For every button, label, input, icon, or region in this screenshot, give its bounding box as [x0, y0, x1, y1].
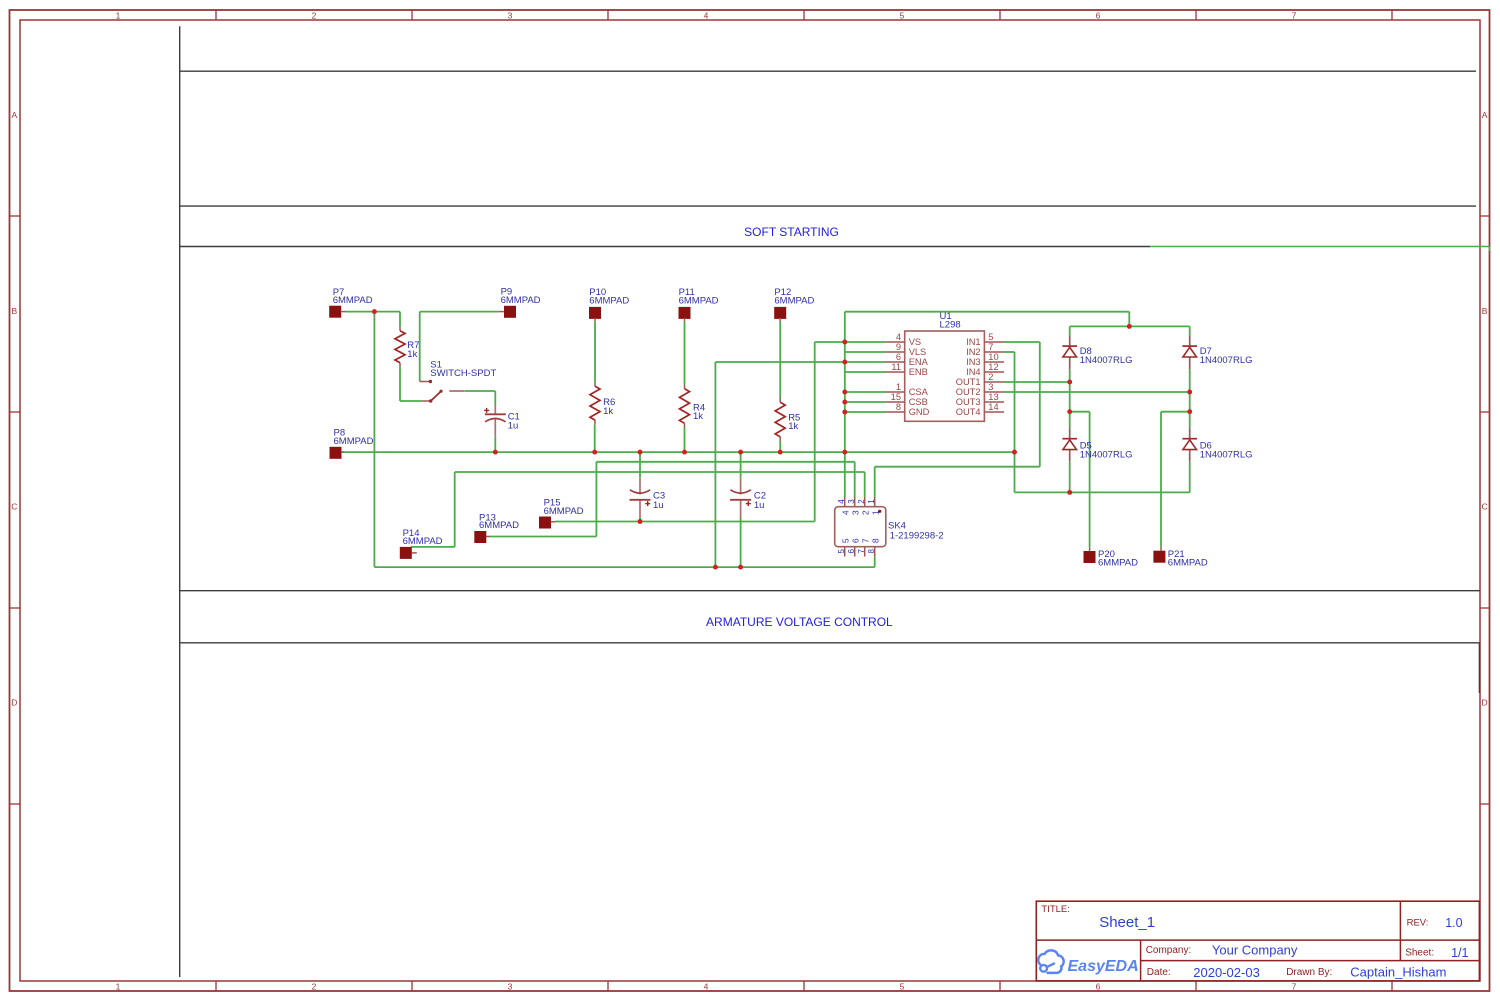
- svg-text:2: 2: [988, 372, 993, 382]
- svg-text:5: 5: [840, 538, 850, 543]
- svg-text:8: 8: [870, 538, 880, 543]
- pad P12: [774, 287, 814, 322]
- svg-text:1N4007RLG: 1N4007RLG: [1080, 355, 1133, 366]
- svg-text:1: 1: [116, 981, 121, 991]
- svg-text:D: D: [1482, 698, 1488, 708]
- svg-text:4: 4: [840, 510, 850, 515]
- svg-text:2: 2: [312, 981, 317, 991]
- section line 1: [180, 70, 1476, 72]
- wire OUT1: [1004, 381, 1070, 383]
- wire CSA pin: [845, 391, 885, 393]
- svg-text:9: 9: [896, 342, 901, 352]
- wire P21 branch: [1161, 412, 1190, 547]
- capacitor C2 1u: [730, 477, 766, 518]
- svg-text:SOFT STARTING: SOFT STARTING: [744, 225, 839, 239]
- wire P7 riser to bottom: [373, 312, 375, 567]
- U1 pin 4 VS: [885, 332, 921, 347]
- svg-text:7: 7: [1292, 10, 1297, 20]
- svg-text:15: 15: [891, 392, 901, 402]
- svg-text:C: C: [11, 502, 17, 512]
- svg-text:1N4007RLG: 1N4007RLG: [1200, 450, 1253, 461]
- frame row ticks and letters: [10, 110, 1490, 804]
- svg-text:10: 10: [988, 352, 998, 362]
- svg-text:6MMPAD: 6MMPAD: [589, 295, 629, 306]
- svg-text:Company:: Company:: [1146, 945, 1192, 956]
- svg-text:1N4007RLG: 1N4007RLG: [1080, 450, 1133, 461]
- pad P13: [474, 513, 519, 544]
- svg-text:B: B: [1482, 306, 1488, 316]
- svg-text:OUT2: OUT2: [956, 387, 981, 397]
- svg-text:6MMPAD: 6MMPAD: [774, 295, 814, 306]
- svg-text:Sheet_1: Sheet_1: [1099, 914, 1155, 931]
- svg-text:6MMPAD: 6MMPAD: [334, 436, 374, 447]
- svg-text:5: 5: [837, 549, 846, 554]
- svg-text:IN2: IN2: [966, 347, 980, 357]
- svg-text:12: 12: [988, 362, 998, 372]
- svg-text:CSB: CSB: [909, 397, 928, 407]
- title block texts: [1041, 904, 1468, 980]
- svg-text:Date:: Date:: [1147, 967, 1171, 978]
- svg-text:6: 6: [1096, 10, 1101, 20]
- wire P7 row: [346, 311, 400, 313]
- diode D8 1N4007RLG: [1062, 326, 1132, 382]
- switch S1 SWITCH-SPDT: [420, 360, 497, 403]
- svg-text:5: 5: [900, 981, 905, 991]
- wire D7-D6 link: [1189, 392, 1191, 412]
- pad P10: [589, 287, 629, 322]
- pad P8: [330, 427, 374, 458]
- svg-text:4: 4: [837, 499, 846, 504]
- wire D5-D6 bottom: [1015, 491, 1190, 493]
- svg-text:6MMPAD: 6MMPAD: [403, 536, 443, 547]
- diode D5 1N4007RLG: [1062, 412, 1132, 493]
- SK4 pin 5: [837, 538, 850, 556]
- svg-text:ENA: ENA: [909, 357, 929, 367]
- svg-text:1/1: 1/1: [1451, 946, 1468, 960]
- junction dots: [372, 309, 1192, 569]
- svg-text:1k: 1k: [407, 349, 417, 360]
- svg-text:1.0: 1.0: [1445, 916, 1462, 930]
- svg-text:OUT1: OUT1: [956, 377, 981, 387]
- U1 pin 6 ENA: [885, 352, 929, 367]
- svg-text:1k: 1k: [603, 406, 613, 417]
- svg-text:1u: 1u: [754, 500, 765, 511]
- svg-text:1: 1: [116, 10, 121, 20]
- svg-text:1u: 1u: [653, 500, 664, 511]
- resistor R4: [680, 385, 706, 428]
- wire R7 column: [400, 312, 421, 401]
- wire main bus: [342, 451, 1015, 453]
- svg-text:2: 2: [312, 10, 317, 20]
- U1 pin 12 IN4: [966, 362, 1004, 377]
- wire P10-R6 column: [594, 322, 596, 452]
- wire P14 net: [411, 472, 455, 547]
- U1 pin 13 OUT3: [956, 392, 1004, 407]
- wire switch to C1: [465, 391, 496, 405]
- svg-text:1: 1: [867, 499, 876, 504]
- svg-text:7: 7: [1292, 981, 1297, 991]
- resistor R5: [775, 398, 800, 441]
- wire OUT2: [1004, 391, 1190, 393]
- wire SK4 pin2 net: [455, 472, 865, 497]
- svg-text:7: 7: [860, 538, 870, 543]
- diode D6 1N4007RLG: [1182, 412, 1252, 493]
- pad P9: [498, 287, 540, 318]
- svg-text:13: 13: [988, 392, 998, 402]
- capacitor C1 1u: [484, 405, 520, 437]
- svg-text:4: 4: [704, 10, 709, 20]
- svg-text:11: 11: [891, 362, 901, 372]
- resistor R7: [395, 327, 419, 367]
- svg-text:2: 2: [860, 510, 870, 515]
- svg-text:8: 8: [896, 402, 901, 412]
- svg-text:A: A: [11, 110, 17, 120]
- pad P15: [539, 498, 584, 529]
- SK4 pin 6: [847, 538, 860, 556]
- svg-text:ARMATURE VOLTAGE CONTROL: ARMATURE VOLTAGE CONTROL: [706, 615, 893, 629]
- SK4 pin 8: [867, 538, 880, 556]
- svg-text:Sheet:: Sheet:: [1405, 948, 1434, 959]
- section title ARMATURE VOLTAGE CONTROL: [706, 615, 893, 629]
- wire P15 net: [555, 521, 815, 523]
- U1 pin 10 IN3: [966, 352, 1004, 367]
- svg-text:OUT3: OUT3: [956, 397, 981, 407]
- connector SK4 1-2199298-2: [835, 507, 944, 547]
- wire D8-D7 top: [1070, 325, 1190, 327]
- resistor R6: [590, 382, 615, 424]
- wire P12-R5 column: [779, 322, 781, 452]
- wire net along section line 3: [1150, 247, 1489, 252]
- svg-text:3: 3: [508, 981, 513, 991]
- section edge stub right: [1478, 643, 1480, 693]
- svg-text:6: 6: [847, 549, 856, 554]
- svg-text:GND: GND: [909, 407, 930, 417]
- svg-text:6MMPAD: 6MMPAD: [679, 295, 719, 306]
- svg-text:REV:: REV:: [1407, 917, 1429, 928]
- svg-text:OUT4: OUT4: [956, 407, 981, 417]
- SK4 pin 4: [837, 497, 850, 515]
- wire SK4 pin4 riser: [844, 312, 846, 497]
- pad P20: [1084, 547, 1139, 568]
- svg-text:5: 5: [988, 332, 993, 342]
- svg-text:1N4007RLG: 1N4007RLG: [1200, 355, 1253, 366]
- svg-text:2: 2: [857, 499, 866, 504]
- svg-text:3: 3: [847, 499, 856, 504]
- SK4 pin 1: [867, 497, 880, 515]
- svg-text:D: D: [11, 698, 17, 708]
- wire SK4 pin1 net: [875, 467, 1040, 497]
- wire ENA pin: [715, 361, 885, 363]
- svg-text:A: A: [1482, 110, 1488, 120]
- section line 4: [180, 590, 1480, 592]
- wire IN2: [1004, 352, 1015, 492]
- svg-text:VLS: VLS: [909, 347, 927, 357]
- pad P11: [679, 287, 719, 322]
- svg-text:C: C: [1482, 502, 1488, 512]
- wire SK4 pin3 net: [596, 462, 854, 497]
- pad P7: [329, 287, 373, 318]
- svg-text:SWITCH-SPDT: SWITCH-SPDT: [430, 368, 496, 379]
- svg-text:4: 4: [896, 332, 901, 342]
- svg-text:6MMPAD: 6MMPAD: [501, 295, 541, 306]
- svg-text:6MMPAD: 6MMPAD: [1168, 558, 1208, 569]
- diode D7 1N4007RLG: [1182, 326, 1252, 392]
- svg-text:IN1: IN1: [966, 337, 980, 347]
- svg-text:CSA: CSA: [909, 387, 929, 397]
- svg-text:ENB: ENB: [909, 367, 928, 377]
- wire top bus VS net: [845, 312, 1130, 327]
- U1 pin 14 OUT4: [956, 402, 1004, 417]
- svg-text:6MMPAD: 6MMPAD: [479, 520, 519, 531]
- svg-text:Your Company: Your Company: [1212, 943, 1298, 958]
- svg-text:3: 3: [508, 10, 513, 20]
- svg-text:14: 14: [988, 402, 998, 412]
- svg-text:6MMPAD: 6MMPAD: [544, 506, 584, 517]
- svg-text:1: 1: [870, 510, 880, 515]
- svg-text:1k: 1k: [693, 411, 703, 422]
- svg-text:6MMPAD: 6MMPAD: [1098, 558, 1138, 569]
- wire CSB pin: [845, 401, 885, 403]
- pad P14: [400, 528, 443, 559]
- wire VS-P15 riser: [814, 342, 816, 522]
- wire IN1: [1004, 342, 1040, 467]
- U1 pin 9 VLS: [885, 342, 926, 357]
- svg-text:EasyEDA: EasyEDA: [1068, 958, 1139, 975]
- svg-text:3: 3: [988, 382, 993, 392]
- svg-text:B: B: [11, 306, 17, 316]
- wire D8-D5 link: [1069, 382, 1071, 412]
- wire VLS pin: [845, 351, 885, 353]
- svg-text:VS: VS: [909, 337, 921, 347]
- EasyEDA logo: [1038, 950, 1138, 975]
- svg-text:L298: L298: [940, 320, 961, 331]
- svg-text:6: 6: [850, 538, 860, 543]
- capacitor C3 1u: [630, 477, 666, 518]
- U1 pin 3 OUT2: [956, 382, 1004, 397]
- svg-text:IN4: IN4: [966, 367, 980, 377]
- SK4 pin 2: [857, 497, 870, 515]
- wire P9 drop to switch: [419, 312, 421, 382]
- svg-text:1k: 1k: [788, 421, 798, 432]
- wire ENB pin: [845, 371, 885, 373]
- U1 pin 5 IN1: [966, 332, 1004, 347]
- svg-text:7: 7: [857, 549, 866, 554]
- wire bottom net: [374, 557, 874, 568]
- wire P20 branch: [1070, 412, 1090, 548]
- svg-text:3: 3: [850, 510, 860, 515]
- svg-text:1-2199298-2: 1-2199298-2: [890, 530, 944, 541]
- svg-text:7: 7: [988, 342, 993, 352]
- U1 pin 15 CSB: [885, 392, 928, 407]
- section boundary vertical line: [179, 26, 181, 977]
- pad P21: [1153, 547, 1207, 569]
- wire P13 net: [490, 462, 596, 537]
- U1 pin 8 GND: [885, 402, 930, 417]
- svg-text:4: 4: [704, 981, 709, 991]
- svg-text:1u: 1u: [508, 421, 519, 432]
- svg-text:5: 5: [900, 10, 905, 20]
- U1 pin 1 CSA: [885, 382, 929, 397]
- wire C1 bottom: [494, 437, 496, 452]
- wire P11-R4 column: [684, 322, 686, 452]
- wire C2 column: [740, 452, 742, 567]
- wire GND pin: [845, 411, 885, 413]
- U1 pin 11 ENB: [885, 362, 928, 377]
- svg-text:TITLE:: TITLE:: [1041, 904, 1070, 915]
- op-amp U1 L298: [905, 311, 985, 421]
- svg-text:6: 6: [1096, 981, 1101, 991]
- svg-text:1: 1: [896, 382, 901, 392]
- svg-text:6: 6: [896, 352, 901, 362]
- U1 pin 2 OUT1: [956, 372, 1004, 387]
- SK4 pin 7: [857, 538, 870, 556]
- section line 5: [180, 642, 1480, 644]
- svg-text:2020-02-03: 2020-02-03: [1193, 965, 1260, 980]
- wire C3 column: [639, 452, 641, 521]
- SK4 pin 3: [847, 497, 860, 515]
- svg-text:Drawn By:: Drawn By:: [1286, 967, 1332, 978]
- title block: [1036, 901, 1479, 981]
- section title SOFT STARTING: [744, 225, 839, 239]
- wire VS pin: [815, 341, 885, 343]
- wire P9 row: [420, 311, 499, 313]
- svg-text:Captain_Hisham: Captain_Hisham: [1350, 964, 1446, 979]
- svg-text:8: 8: [867, 549, 876, 554]
- section line 3 (partly black): [180, 246, 1150, 248]
- svg-text:6MMPAD: 6MMPAD: [333, 295, 373, 306]
- U1 pin 7 IN2: [966, 342, 1004, 357]
- wire ENA drop: [714, 362, 716, 567]
- svg-text:IN3: IN3: [966, 357, 980, 367]
- section line 2: [180, 205, 1476, 207]
